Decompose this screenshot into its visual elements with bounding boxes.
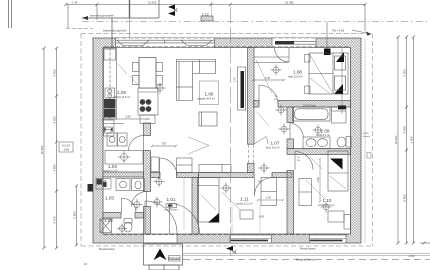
svg-text:750: 750 [162, 142, 167, 146]
lamp bath [313, 125, 324, 136]
washer 1.04 [107, 133, 127, 146]
svg-text:hőszig.: hőszig. [363, 136, 370, 138]
lamp hall upper [154, 176, 165, 187]
svg-text:1.10: 1.10 [323, 198, 332, 203]
svg-text:Pd: +4,05: Pd: +4,05 [332, 29, 344, 33]
middle wall corridor|1.11 segment [272, 173, 292, 178]
toilet bath [337, 137, 351, 148]
stack marker triangle top [336, 52, 344, 62]
bed 1.10 [328, 151, 348, 191]
wall living|1.08 [248, 48, 255, 145]
svg-text:nappali 26,4 m²: nappali 26,4 m² [197, 97, 215, 101]
svg-text:1.06: 1.06 [205, 92, 214, 97]
svg-text:15 385: 15 385 [285, 0, 294, 4]
fence dashed bottom [183, 252, 430, 254]
lamp 1.04 [118, 151, 130, 163]
svg-text:1.04: 1.04 [108, 164, 117, 169]
wc 1.02 [124, 219, 132, 233]
stack marker rect [338, 106, 346, 110]
svg-text:mosó 4,1 m²: mosó 4,1 m² [103, 169, 118, 173]
svg-text:1.11: 1.11 [240, 197, 249, 202]
bathtub [293, 107, 331, 121]
rug / coffee table [200, 81, 219, 105]
washing machine bath [332, 107, 347, 123]
svg-text:háló 13,9 m²: háló 13,9 m² [288, 75, 303, 79]
top dimension line [65, 3, 367, 31]
passage living->corridor [248, 137, 268, 163]
wall corridor left lower [248, 163, 255, 172]
lamp kitchen [155, 83, 166, 94]
svg-text:1,50: 1,50 [265, 76, 271, 80]
window bottom 1.11 [230, 235, 272, 244]
svg-text:20 400: 20 400 [40, 145, 44, 154]
wall hall|small rooms lower [144, 207, 151, 235]
entrance door opening bottom [144, 234, 178, 243]
bottom right dim ticks [420, 242, 430, 245]
wall corridor|bath upper [287, 107, 294, 123]
wall 1.04|1.03 [103, 172, 144, 177]
nightstand 1.08 upper [305, 55, 311, 63]
stack line with markers in 1.08/bath [341, 48, 343, 115]
left dimension lines [42, 47, 78, 250]
small dim 750 [151, 145, 177, 147]
door 1.02 in wall 1.03|1.02 [122, 198, 137, 213]
svg-text:25/30: 25/30 [363, 133, 369, 135]
lamp 1.02 [117, 224, 127, 234]
svg-text:1.07: 1.07 [271, 141, 280, 146]
wardrobe 1.11 [261, 178, 277, 206]
svg-text:étkező 12,5 m²: étkező 12,5 m² [113, 95, 130, 99]
roof overhang left [80, 34, 82, 247]
svg-text:1.01: 1.01 [167, 197, 176, 202]
svg-text:1 45: 1 45 [72, 0, 78, 4]
bath door arc [290, 123, 304, 140]
sink kitchen [105, 88, 115, 98]
meter box [96, 179, 111, 190]
svg-text:4 350: 4 350 [403, 126, 407, 133]
stove dark units [104, 99, 116, 108]
armchair [199, 112, 217, 126]
svg-text:fürdő 6,2 m²: fürdő 6,2 m² [316, 133, 330, 137]
svg-text:közl. 8,5 m²: közl. 8,5 m² [266, 146, 280, 150]
exterior wall ring [93, 38, 361, 243]
north arrow in porch [154, 249, 167, 261]
lamp symbols corridor [276, 105, 287, 116]
svg-text:K-0,02: K-0,02 [62, 144, 70, 148]
svg-text:Mosott kavics: Mosott kavics [99, 247, 115, 251]
right dimension lines [396, 36, 415, 245]
window top kitchen/dining [116, 38, 215, 48]
wall 1.03|1.02 [103, 213, 121, 219]
svg-text:1.05: 1.05 [117, 90, 126, 95]
roof overhang bottom [81, 245, 373, 247]
terrace door arc [275, 48, 290, 63]
svg-text:-0,45: -0,45 [63, 148, 69, 152]
door to 1.10 [295, 152, 313, 170]
roof overhang right [372, 34, 374, 247]
middle wall kitchen|hall segment [151, 173, 161, 178]
svg-text:1 050: 1 050 [410, 136, 414, 143]
fridge [104, 49, 116, 60]
svg-text:ÉSZAK: ÉSZAK [168, 256, 180, 261]
svg-text:6 550: 6 550 [403, 69, 407, 76]
boiler [104, 127, 111, 133]
hall dim extension [183, 178, 185, 230]
svg-text:Meglévő kerítés: Meglévő kerítés [296, 258, 316, 262]
parquet diagonals kitchen [118, 64, 127, 74]
dining table [139, 58, 156, 89]
lamp 1.03 [132, 199, 143, 210]
tv console [238, 67, 246, 110]
partition kitchen|1.04 [103, 120, 124, 124]
section marker A top [168, 5, 180, 17]
svg-text:4 050: 4 050 [53, 69, 57, 76]
svg-text:2,05: 2,05 [125, 115, 131, 119]
vanity with two basins [303, 137, 330, 149]
svg-text:létesítendő gázmérő: létesítendő gázmérő [103, 29, 127, 33]
basin 1.03 [116, 179, 130, 191]
dim line 1.10 vertical [319, 158, 321, 203]
roof overhang top [81, 33, 373, 35]
parquet chevron living [188, 137, 209, 146]
window extension lines 1.11 [231, 205, 233, 235]
svg-text:1,50: 1,50 [266, 195, 272, 199]
wall TV black bar living [241, 71, 245, 108]
hall entrance door: middle wall opening leaf [160, 158, 178, 176]
counter 1.04 [105, 151, 143, 165]
svg-text:8 800: 8 800 [403, 194, 407, 201]
side table 1.10 [344, 215, 351, 230]
svg-text:1.02: 1.02 [104, 218, 113, 223]
left tiny label box [59, 142, 73, 152]
inner bottom dashed line (lintel) [104, 234, 350, 236]
svg-text:szoba 12,2 m²: szoba 12,2 m² [236, 201, 253, 205]
svg-text:szoba 11,8 m²: szoba 11,8 m² [318, 203, 334, 207]
svg-text:1.08: 1.08 [293, 70, 302, 75]
svg-text:m=2700mm: m=2700mm [165, 209, 178, 212]
svg-text:4 850: 4 850 [53, 164, 57, 171]
plinth line right of building [364, 39, 366, 243]
svg-text:20 400: 20 400 [394, 135, 398, 144]
wardrobe 1.10 [299, 179, 312, 206]
door kitchen->1.04 in vertical wall [129, 136, 144, 151]
lamp 1.10 [321, 202, 332, 213]
chairs [133, 63, 163, 85]
svg-text:-0,02: -0,02 [408, 254, 415, 258]
entrance door arc [145, 201, 200, 234]
door corridor->1.08 [259, 85, 278, 104]
utility line x327 [326, 22, 328, 56]
door 1.03 [132, 192, 147, 207]
svg-text:170x75 kád: 170x75 kád [303, 104, 316, 107]
bed 1.11 [198, 178, 220, 223]
parquet diag 1.10 [306, 180, 326, 200]
sofa [177, 60, 216, 101]
pantry cabinet [104, 120, 115, 136]
kitchen counter along left wall [104, 48, 117, 119]
svg-text:1,75: 1,75 [233, 77, 237, 83]
outdoor meter box left wall [88, 184, 94, 192]
inner top dashed line (lintel) [104, 46, 350, 48]
desk 1.11 [240, 210, 253, 219]
wardrobe shelf 1.08 top [254, 57, 289, 63]
diagonal parquet corridor [257, 112, 269, 126]
lamp 1.11 [221, 183, 232, 194]
dim line 1.11 horizontal [257, 199, 284, 201]
section marker A bottom [226, 246, 239, 254]
wall 1.08|bath+corridor (main) [278, 101, 351, 108]
svg-text:5 900: 5 900 [73, 211, 77, 218]
middle wall hall segment [177, 173, 199, 178]
sideboard living against middle wall [199, 165, 231, 173]
svg-text:1.03: 1.03 [105, 196, 114, 201]
wall hall|small rooms mid [144, 151, 151, 192]
wall bath|1.10 [287, 149, 351, 155]
property dash-dot line top [82, 21, 430, 23]
vent box right wall [367, 153, 371, 159]
parquet diagonal 1.08 left [256, 60, 272, 93]
svg-text:tervezett gázvezeték: tervezett gázvezeték [90, 14, 114, 18]
hall label box [166, 204, 177, 208]
lamp 1.08 [271, 65, 282, 76]
wall hall|small rooms (vertical) upper [144, 123, 151, 136]
stack marker triangle mid [334, 84, 343, 94]
nightstand 1.08 lower [305, 86, 311, 94]
svg-text:2,98: 2,98 [316, 177, 320, 183]
parquet diag 1.11 [222, 192, 240, 210]
bed 1.08 [309, 53, 348, 94]
lamp hall lower [152, 197, 163, 208]
dim 1.08 door [252, 79, 285, 81]
door to 1.11 [255, 178, 273, 196]
kitchen island [138, 88, 158, 124]
wall 1.08|corridor left piece [254, 101, 260, 108]
dimension line kitchen/1.04 [102, 118, 150, 121]
shoe cabinet kitchen corner [151, 157, 159, 172]
wall 1.11|1.10 [287, 171, 294, 235]
svg-text:11 415: 11 415 [148, 0, 157, 4]
closet kitchen side [177, 158, 193, 173]
desk 1.10 [328, 211, 344, 222]
svg-text:1.09: 1.09 [321, 128, 330, 133]
svg-text:5 700: 5 700 [53, 216, 57, 223]
window bottom 1.10 [310, 235, 347, 244]
middle wall living|1.11 segment [199, 173, 255, 178]
wc 1.03 [132, 179, 145, 191]
wall hall|1.11 [192, 178, 199, 235]
svg-text:Mosott kavics: Mosott kavics [300, 247, 316, 251]
svg-text:4,00: 4,00 [259, 215, 265, 219]
wall corridor|bath lower stub [287, 139, 294, 149]
svg-text:4 650: 4 650 [53, 116, 57, 123]
small double line far left [8, 0, 10, 28]
terrace door top 1.08 [272, 38, 316, 48]
shower [100, 219, 112, 233]
